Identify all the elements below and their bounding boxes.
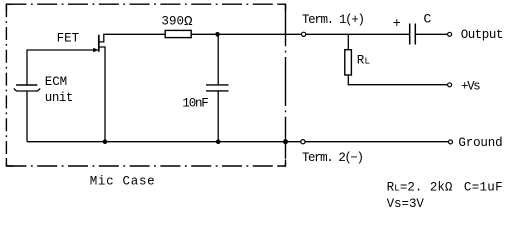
FET drain stair <box>99 34 104 42</box>
capacitor C right plate <box>414 24 416 45</box>
node junction dot 10nF <box>216 139 221 144</box>
FET gate arrow <box>93 48 98 53</box>
terminal Term.2 circle <box>301 140 305 144</box>
svg-text:Ω: Ω <box>184 14 193 30</box>
svg-text:Mic Case: Mic Case <box>90 174 155 188</box>
capacitor 10nF top plate <box>206 84 229 86</box>
svg-text:unit: unit <box>45 91 74 105</box>
resistor RL body <box>345 50 352 75</box>
node junction dot top <box>215 32 220 37</box>
ground rail wire <box>27 141 449 143</box>
capacitor 10nF bottom plate <box>206 90 229 92</box>
svg-text:+Vs: +Vs <box>461 79 481 93</box>
terminal Output circle <box>448 32 452 36</box>
wire 10nF to ground rail <box>217 91 219 142</box>
ECM capsule bottom plate <box>14 89 40 92</box>
svg-text:RL: RL <box>357 54 371 68</box>
resistor RL branch wire <box>347 34 349 49</box>
wire gate from ECM to FET <box>27 49 96 51</box>
wire ECM left vertical lower <box>26 91 28 142</box>
transistor Q1 FET bar <box>98 35 100 52</box>
svg-text:Output: Output <box>461 28 504 42</box>
svg-text:390: 390 <box>161 15 184 29</box>
node junction dot FET source <box>103 139 108 144</box>
svg-text:+: + <box>393 17 401 32</box>
wire drain to resistor <box>103 33 165 35</box>
capacitor 10nF branch wire down <box>217 34 219 85</box>
ECM capsule top plate <box>16 84 37 86</box>
wire RL bottom to +Vs <box>348 75 447 85</box>
FET source stair and wire down to ground rail <box>99 47 105 142</box>
svg-text:ECM: ECM <box>45 75 67 89</box>
terminal Ground circle <box>449 140 453 144</box>
terminal Term.1 circle <box>302 32 306 36</box>
svg-text:RL=2. 2kΩ: RL=2. 2kΩ <box>387 181 453 195</box>
capacitor C left plate <box>409 24 411 45</box>
node junction dot case to ground <box>283 139 288 144</box>
svg-text:Ground: Ground <box>458 136 502 150</box>
svg-text:C=1uF: C=1uF <box>464 181 503 195</box>
svg-text:C: C <box>424 11 432 26</box>
wire resistor to Term.1 <box>191 33 301 35</box>
svg-text:FET: FET <box>57 32 80 46</box>
mic case dashed border <box>6 4 285 166</box>
resistor 390ohm body <box>165 30 191 37</box>
svg-text:Term. 1(+): Term. 1(+) <box>302 13 365 27</box>
svg-text:Vs=3V: Vs=3V <box>387 197 425 211</box>
wire ECM left vertical upper <box>26 49 28 85</box>
wire C to Output <box>415 33 447 35</box>
svg-text:Term. 2(−): Term. 2(−) <box>302 151 364 165</box>
svg-text:10nF: 10nF <box>182 97 208 111</box>
terminal +Vs circle <box>448 83 452 87</box>
wire Term.1 to capacitor C <box>306 33 410 35</box>
